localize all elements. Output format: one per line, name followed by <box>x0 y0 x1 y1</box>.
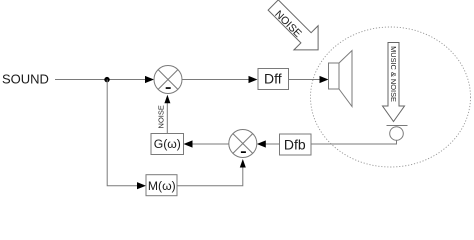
big NOISE arrow (diagonal, into ellipse) <box>261 0 330 62</box>
wire S1 to Dff <box>182 79 250 81</box>
summing junction S2 <box>229 130 257 158</box>
minus sign at S1 bottom input <box>166 87 171 89</box>
dotted ellipse (ear/listening zone) <box>311 27 471 167</box>
wire G block up to S1 <box>166 101 168 134</box>
wire junction down to bottom row <box>107 80 138 186</box>
speaker symbol <box>329 51 353 107</box>
block Dff <box>258 69 289 90</box>
summing junction S1 <box>154 66 182 94</box>
wire Dfb to summing node S2 <box>265 143 280 145</box>
wire microphone to Dfb <box>311 140 397 144</box>
block M(w) <box>146 175 177 196</box>
svg-text:NOISE: NOISE <box>156 105 165 128</box>
wire M block to S2 <box>177 165 243 186</box>
arrowhead into Dff <box>249 76 258 83</box>
arrowhead into S2 bottom <box>240 159 246 168</box>
arrowhead into S2 right <box>257 140 266 147</box>
block G(w) <box>151 134 184 155</box>
wire Dff to speaker <box>289 79 321 81</box>
svg-text:Dfb: Dfb <box>284 137 306 153</box>
svg-text:MUSIC & NOISE: MUSIC & NOISE <box>389 46 398 102</box>
arrowhead into M block <box>137 182 146 189</box>
svg-text:M(ω): M(ω) <box>148 179 176 193</box>
microphone <box>387 126 408 141</box>
node junction dot <box>104 77 109 82</box>
wire S2 to G block <box>192 143 229 145</box>
svg-text:G(ω): G(ω) <box>154 137 181 151</box>
arrowhead into S1 bottom <box>164 95 170 104</box>
svg-text:Dff: Dff <box>264 71 282 87</box>
MUSIC & NOISE arrow (down, inside ellipse) <box>383 43 405 122</box>
arrowhead into S1 left <box>145 76 154 83</box>
wire SOUND to summing node S1 <box>55 79 146 81</box>
minus sign at S2 bottom input <box>241 151 246 153</box>
svg-text:SOUND: SOUND <box>2 71 49 86</box>
block Dfb <box>280 134 312 155</box>
arrowhead into speaker <box>320 76 329 83</box>
arrowhead into G block <box>184 140 193 147</box>
